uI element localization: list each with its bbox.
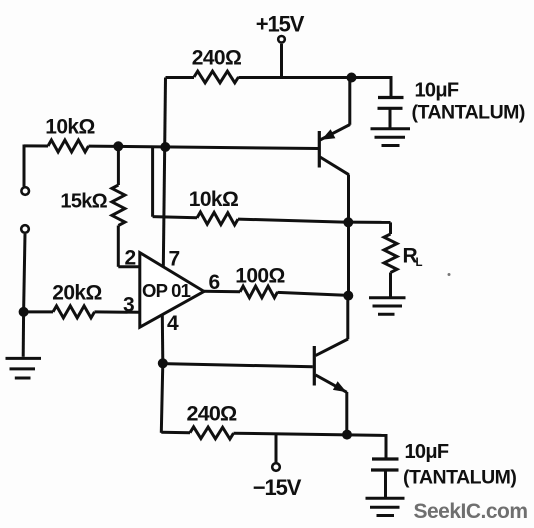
svg-text:6: 6: [208, 271, 219, 294]
svg-text:10kΩ: 10kΩ: [45, 116, 94, 139]
svg-text:7: 7: [168, 248, 179, 271]
svg-text:100Ω: 100Ω: [235, 265, 284, 288]
svg-text:L: L: [416, 257, 423, 269]
svg-text:2: 2: [124, 247, 135, 270]
svg-text:10kΩ: 10kΩ: [189, 188, 238, 211]
svg-text:20kΩ: 20kΩ: [52, 282, 101, 305]
svg-text:15kΩ: 15kΩ: [60, 191, 107, 213]
svg-text:OP 01: OP 01: [142, 280, 191, 301]
svg-text:10μF: 10μF: [405, 441, 449, 463]
svg-text:SeekIC.com: SeekIC.com: [414, 500, 528, 523]
svg-text:(TANTALUM): (TANTALUM): [403, 467, 516, 489]
svg-text:−15V: −15V: [253, 475, 302, 500]
svg-text:240Ω: 240Ω: [187, 402, 237, 426]
svg-text:10μF: 10μF: [415, 80, 459, 102]
svg-text:240Ω: 240Ω: [192, 47, 241, 70]
svg-text:3: 3: [123, 294, 134, 317]
svg-text:(TANTALUM): (TANTALUM): [412, 102, 525, 124]
svg-text:+15V: +15V: [256, 12, 305, 37]
svg-text:4: 4: [167, 312, 179, 335]
